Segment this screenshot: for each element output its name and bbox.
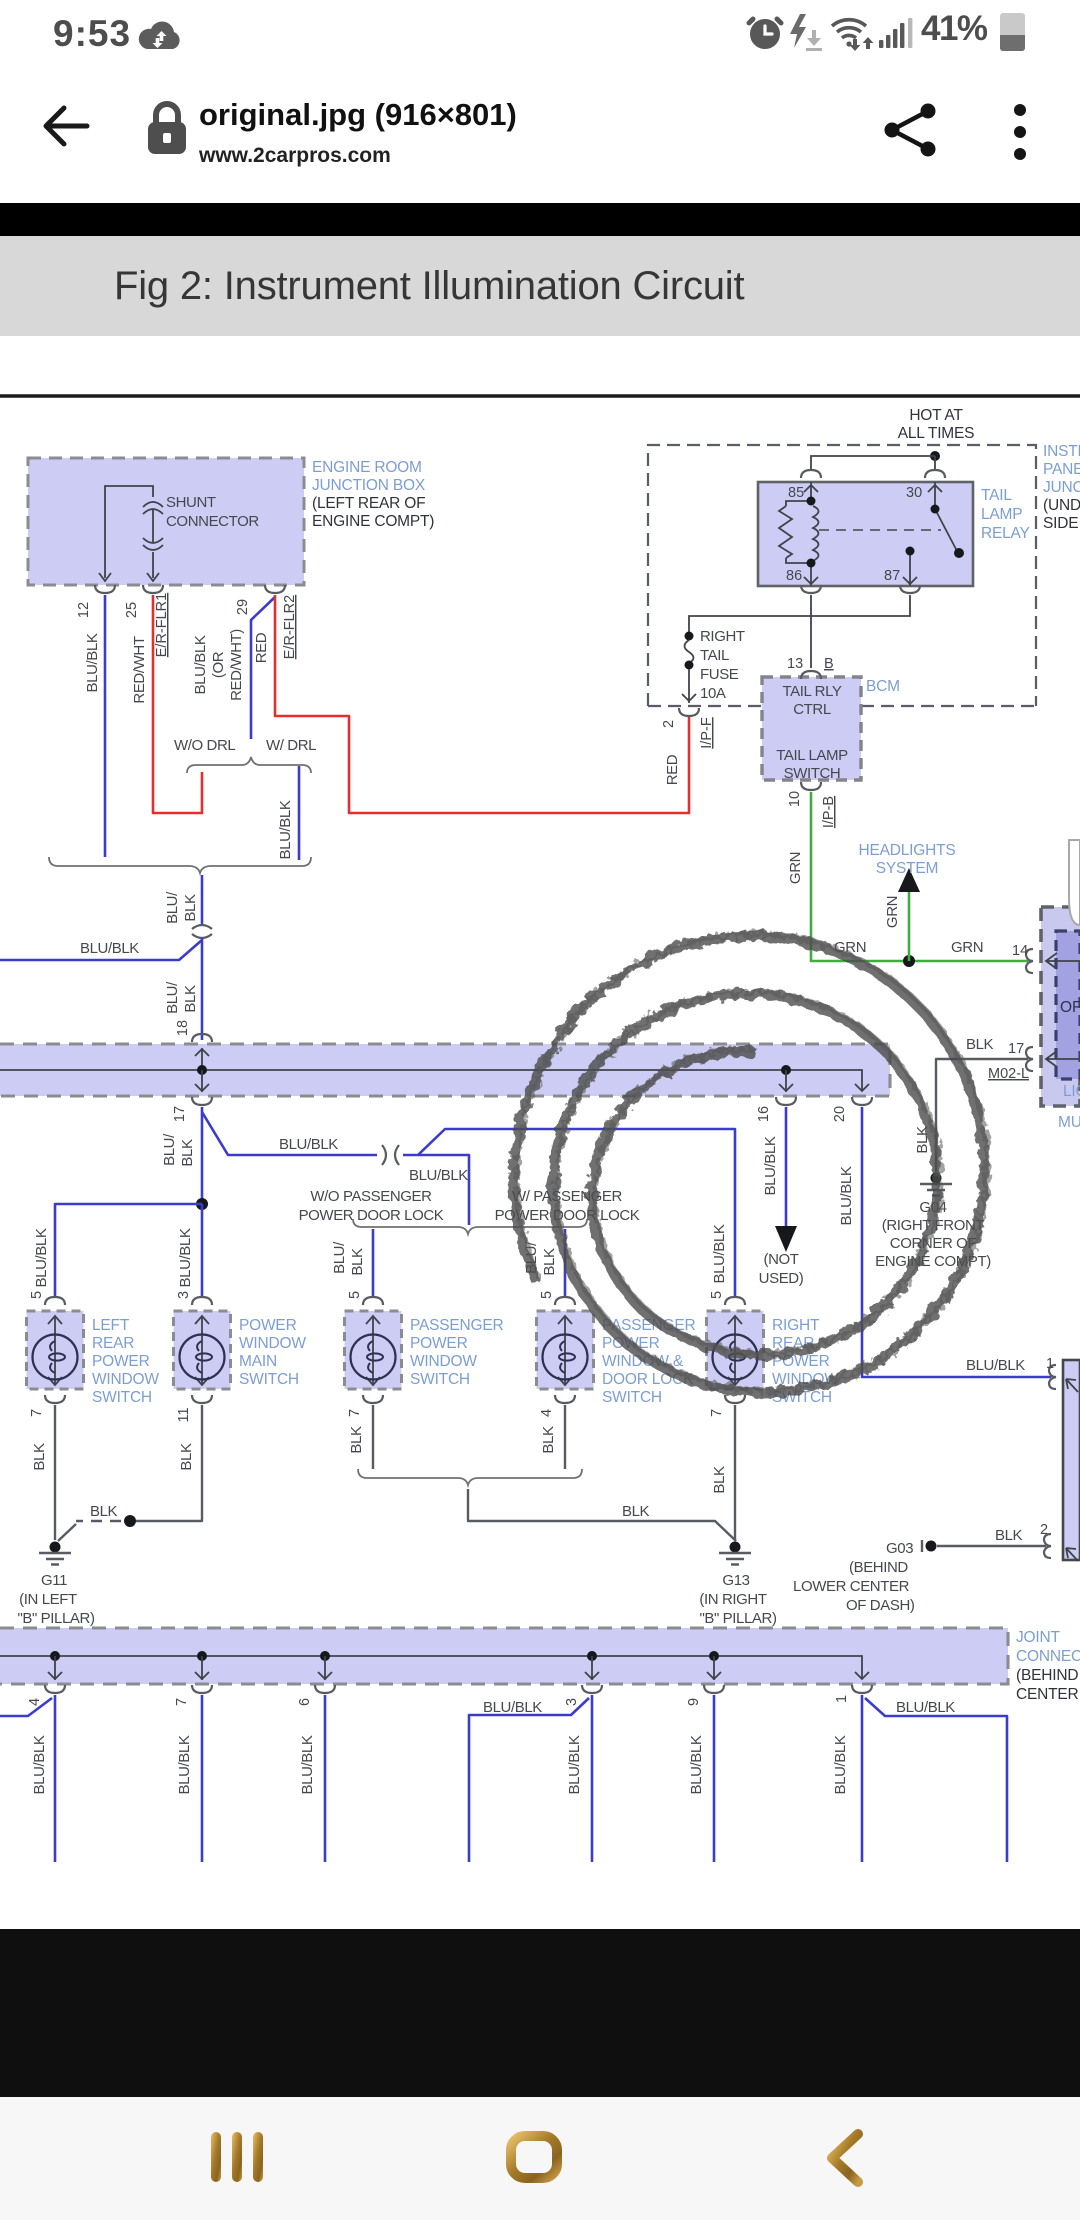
svg-text:OF DASH): OF DASH): [846, 1597, 915, 1614]
wire BLK right rear to G13: [734, 1405, 736, 1540]
svg-text:SWITCH: SWITCH: [92, 1389, 152, 1406]
svg-text:CENTER C: CENTER C: [1016, 1686, 1080, 1703]
shunt connector SC1: [143, 502, 163, 581]
svg-text:2: 2: [661, 720, 677, 728]
engine room junction box: [28, 458, 304, 585]
svg-text:BLU/: BLU/: [331, 1241, 348, 1274]
svg-text:7: 7: [347, 1409, 363, 1417]
svg-text:W/ PASSENGER: W/ PASSENGER: [512, 1188, 623, 1205]
svg-text:G13: G13: [722, 1572, 749, 1589]
exit arrow pin 16: [779, 1070, 793, 1092]
svg-text:BLK: BLK: [348, 1426, 365, 1454]
right edge component box: [1063, 1360, 1080, 1560]
node green junction: [903, 955, 915, 967]
passenger power window switch: [345, 1311, 402, 1389]
svg-text:I/P-B: I/P-B: [821, 796, 837, 828]
wire 87 to fuse: [689, 595, 910, 632]
wire BLK G03 to pin 2: [937, 1545, 1046, 1547]
wire pin1 down: [861, 1695, 864, 1862]
svg-text:BLU/BLK: BLU/BLK: [31, 1735, 48, 1794]
pin 1 connector below bus2: [852, 1685, 872, 1693]
right tail fuse F1: [685, 632, 694, 641]
pin 4 connector below bus2: [45, 1685, 65, 1693]
svg-text:PASSENGER: PASSENGER: [410, 1317, 504, 1334]
svg-text:BLU/BLK: BLU/BLK: [832, 1735, 849, 1794]
node bus2 p6: [320, 1651, 330, 1661]
pin 6 connector below bus2: [315, 1685, 335, 1693]
wire BLK from G04 to pin 17: [936, 1059, 1028, 1172]
passenger power window switch pin5 connector: [363, 1297, 383, 1305]
alarm icon: [746, 13, 784, 51]
svg-text:BLU/: BLU/: [161, 1133, 178, 1166]
svg-text:7: 7: [709, 1409, 725, 1417]
back arrow: [40, 100, 92, 152]
wire after inline connector: [403, 1129, 735, 1297]
svg-text:TAIL: TAIL: [700, 647, 729, 664]
svg-text:(UND: (UND: [1043, 497, 1080, 514]
svg-text:POWER DOOR LOCK: POWER DOOR LOCK: [299, 1207, 444, 1224]
node hot feed: [930, 451, 940, 461]
joint connector bus: [0, 1628, 1008, 1684]
svg-text:85: 85: [788, 485, 804, 501]
BCM pin 13 connector: [801, 671, 821, 679]
wire to passenger switch: [372, 1229, 375, 1297]
svg-text:14: 14: [1012, 943, 1028, 959]
wire pin7 down: [201, 1695, 204, 1862]
svg-text:3: 3: [564, 1698, 580, 1706]
pin 20 connector below bus: [852, 1097, 872, 1105]
node bus2 p4: [50, 1651, 60, 1661]
I/P-F pin 2 connector: [679, 708, 699, 716]
share icon: [881, 102, 939, 158]
lighting switch outer box: [1041, 907, 1080, 1106]
svg-text:POWER: POWER: [239, 1317, 297, 1334]
svg-text:JOINT: JOINT: [1016, 1629, 1061, 1646]
black strip under header: [0, 203, 1080, 236]
pin 25 connector: [143, 585, 163, 593]
svg-text:18: 18: [175, 1020, 191, 1036]
wire BLU/BLK pin16 not used: [785, 1107, 788, 1230]
wire BLK left rear to G11: [54, 1405, 56, 1540]
svg-text:RIGHT: RIGHT: [700, 628, 745, 645]
battery icon: [999, 10, 1026, 52]
svg-text:E/R-FLR1: E/R-FLR1: [154, 593, 170, 657]
svg-text:BLU/BLK: BLU/BLK: [33, 1228, 50, 1287]
junction bus 1: [0, 1044, 890, 1096]
tail lamp relay K1: [758, 482, 973, 586]
svg-text:6: 6: [297, 1698, 313, 1706]
svg-text:20: 20: [832, 1106, 848, 1122]
svg-text:SWITCH: SWITCH: [784, 765, 841, 782]
merge brace to single wire: [49, 857, 311, 873]
wire 86 to BCM pin 13: [810, 595, 812, 668]
svg-text:BLU/: BLU/: [164, 981, 181, 1014]
relay pin 30 connector: [925, 470, 945, 478]
svg-text:HOT AT: HOT AT: [909, 407, 963, 424]
svg-text:JUNC: JUNC: [1043, 479, 1080, 496]
ground G04: [920, 1173, 952, 1196]
svg-text:W/O DRL: W/O DRL: [174, 737, 235, 754]
svg-text:CTRL: CTRL: [793, 701, 831, 718]
node bus1-b: [781, 1065, 791, 1075]
wire pin1 branch right: [865, 1698, 1007, 1862]
svg-text:3: 3: [176, 1291, 192, 1299]
wire pin4 down: [54, 1695, 57, 1862]
wire RED from pin 29 to I/P-F: [275, 595, 689, 813]
svg-text:REAR: REAR: [92, 1335, 134, 1352]
internal wire to shunt: [105, 486, 153, 578]
ground G11: [39, 1542, 71, 1565]
svg-text:BLU/BLK: BLU/BLK: [299, 1735, 316, 1794]
wire to left rear switch: [55, 1204, 202, 1297]
menu dots: [1008, 102, 1032, 162]
wire BLU/BLK below DRL brace: [298, 766, 301, 860]
nav home icon: [506, 2131, 562, 2183]
svg-text:10: 10: [787, 791, 803, 807]
svg-text:BLK: BLK: [711, 1466, 728, 1494]
svg-text:BLK: BLK: [90, 1503, 118, 1520]
brace passenger lock alternatives: [353, 1219, 587, 1234]
svg-text:BLU/BLK: BLU/BLK: [966, 1357, 1025, 1374]
svg-text:BLU/BLK: BLU/BLK: [838, 1166, 855, 1225]
status bar: [0, 0, 1080, 60]
wire BLU/BLK to bus: [201, 938, 204, 1040]
relay pin 87 connector: [900, 585, 920, 593]
svg-text:CONNECTOR: CONNECTOR: [166, 513, 259, 530]
svg-text:BLU/BLK: BLU/BLK: [762, 1136, 779, 1195]
svg-text:SWITCH: SWITCH: [239, 1371, 299, 1388]
svg-text:4: 4: [27, 1698, 43, 1706]
svg-text:RIGHT: RIGHT: [772, 1317, 820, 1334]
left rear power window switch: [27, 1311, 84, 1389]
svg-text:GRN: GRN: [884, 896, 901, 928]
right rear power window switch pin5 connector: [725, 1297, 745, 1305]
svg-text:BLU/BLK: BLU/BLK: [176, 1735, 193, 1794]
svg-text:10A: 10A: [700, 685, 726, 702]
BCM pin 10 connector: [801, 782, 821, 790]
nav recents icon: [209, 2130, 269, 2184]
svg-text:TAIL: TAIL: [981, 487, 1012, 504]
pin 1 connector right: [1049, 1365, 1056, 1389]
exit arrow pin 17: [195, 1070, 209, 1092]
wifi icon: [828, 13, 876, 53]
pin2 entry arrow: [1066, 1548, 1078, 1561]
svg-text:5: 5: [539, 1291, 555, 1299]
wire BLU/BLK below merge: [201, 875, 204, 925]
pin 2 connector right: [1044, 1534, 1051, 1558]
svg-text:(BEHIND L: (BEHIND L: [1016, 1667, 1080, 1684]
nav back icon: [820, 2128, 868, 2188]
svg-text:RELAY: RELAY: [981, 525, 1030, 542]
svg-text:16: 16: [756, 1106, 772, 1122]
node bus1-a: [197, 1065, 207, 1075]
svg-text:ENGINE ROOM: ENGINE ROOM: [312, 459, 422, 476]
svg-text:9: 9: [686, 1698, 702, 1706]
svg-text:"B" PILLAR): "B" PILLAR): [17, 1610, 95, 1627]
pin 17 entry arrow: [1046, 1051, 1080, 1067]
svg-text:WINDOW: WINDOW: [92, 1371, 159, 1388]
svg-text:SHUNT: SHUNT: [166, 494, 216, 511]
svg-text:BLU/BLK: BLU/BLK: [483, 1699, 542, 1716]
svg-text:25: 25: [124, 602, 140, 618]
svg-text:BLU/BLK: BLU/BLK: [896, 1699, 955, 1716]
brace ground merge: [358, 1469, 582, 1485]
svg-text:MU: MU: [1058, 1114, 1080, 1131]
svg-text:B: B: [824, 656, 834, 672]
svg-text:(IN RIGHT: (IN RIGHT: [699, 1591, 766, 1608]
svg-text:"B" PILLAR): "B" PILLAR): [699, 1610, 777, 1627]
svg-text:INSTR: INSTR: [1043, 443, 1080, 460]
wire BLK main switch: [140, 1405, 202, 1521]
bus 1 center line: [0, 1070, 862, 1090]
svg-text:MAIN: MAIN: [239, 1353, 277, 1370]
svg-text:(IN LEFT: (IN LEFT: [19, 1591, 77, 1608]
svg-text:RED: RED: [253, 632, 270, 663]
svg-text:12: 12: [76, 602, 92, 618]
title band: [0, 236, 1080, 336]
svg-text:(BEHIND: (BEHIND: [849, 1559, 908, 1576]
signal bars: [879, 16, 913, 50]
svg-text:LAMP: LAMP: [981, 506, 1022, 523]
passenger power window and door lock switch pin5 connector: [555, 1297, 575, 1305]
pin 14 entry arrow: [1046, 953, 1080, 969]
svg-text:BLK: BLK: [622, 1503, 650, 1520]
svg-text:7: 7: [174, 1698, 190, 1706]
wire BLU/BLK (OR RED/WHT) from pin 29: [251, 597, 275, 739]
svg-text:LOWER CENTER: LOWER CENTER: [793, 1578, 910, 1595]
svg-text:SYSTEM: SYSTEM: [876, 860, 939, 877]
svg-text:(NOT: (NOT: [763, 1251, 798, 1268]
left rear power window switch pin5 connector: [45, 1297, 65, 1305]
svg-text:CONNECTO: CONNECTO: [1016, 1648, 1080, 1665]
svg-text:BLK: BLK: [178, 1443, 195, 1471]
BCM box: [762, 677, 861, 780]
svg-text:WINDOW: WINDOW: [410, 1353, 477, 1370]
exit arrow pin 20: [855, 1084, 869, 1091]
svg-text:5: 5: [29, 1291, 45, 1299]
svg-text:JUNCTION BOX: JUNCTION BOX: [312, 477, 426, 494]
svg-text:G03: G03: [886, 1540, 913, 1557]
pin 14 connector: [1026, 949, 1033, 973]
svg-text:USED): USED): [759, 1270, 804, 1287]
separator line under title: [0, 394, 1080, 397]
relay coil: [779, 482, 819, 586]
svg-text:BLU/BLK: BLU/BLK: [279, 1136, 338, 1153]
svg-text:LEFT: LEFT: [92, 1317, 130, 1334]
wire pin9 down: [713, 1695, 716, 1862]
instrument panel junction box (dashed): [648, 445, 1036, 706]
svg-text:POWER: POWER: [92, 1353, 150, 1370]
wire to main switch: [201, 1204, 204, 1297]
svg-text:BLK: BLK: [995, 1527, 1023, 1544]
svg-text:BLK: BLK: [182, 985, 199, 1013]
wire BLU/BLK from pin 12: [104, 595, 107, 857]
node bus2 p3: [587, 1651, 597, 1661]
hand-drawn pencil circle annotation: [514, 936, 984, 1393]
relay mech link (dashed): [819, 529, 941, 531]
svg-text:G11: G11: [41, 1572, 67, 1589]
svg-text:BLU/BLK: BLU/BLK: [80, 940, 139, 957]
wire pin6 down: [324, 1695, 327, 1862]
svg-text:HEADLIGHTS: HEADLIGHTS: [858, 842, 955, 859]
svg-text:87: 87: [884, 568, 900, 584]
wire BLK merged to G13: [468, 1489, 736, 1541]
wire to pass window+lock switch: [564, 1229, 567, 1297]
svg-text:1: 1: [1046, 1356, 1054, 1372]
battery percent: [921, 9, 987, 49]
svg-text:BLK: BLK: [540, 1426, 557, 1454]
wire to DRL lock brace: [418, 1155, 469, 1225]
wire BLK pass window+lock switch: [564, 1405, 566, 1469]
svg-text:86: 86: [786, 568, 802, 584]
ground G13: [719, 1542, 751, 1565]
wire pin4 branch to left edge: [0, 1698, 52, 1716]
svg-text:GRN: GRN: [787, 852, 804, 884]
wire BLK passenger switch: [372, 1405, 374, 1469]
svg-text:5: 5: [347, 1291, 363, 1299]
bottom black content area: [0, 1929, 1080, 2097]
svg-text:OFF: OFF: [1060, 999, 1080, 1016]
svg-text:RED/WHT: RED/WHT: [131, 636, 148, 703]
svg-text:17: 17: [172, 1106, 188, 1122]
right rear power window switch: [707, 1311, 764, 1389]
svg-text:(OR: (OR: [210, 651, 227, 678]
svg-text:W/ DRL: W/ DRL: [266, 737, 316, 754]
svg-text:ENGINE COMPT): ENGINE COMPT): [875, 1253, 991, 1270]
svg-text:TAIL LAMP: TAIL LAMP: [776, 747, 848, 764]
wire pin3 down: [591, 1695, 594, 1862]
relay pin 86 connector: [801, 585, 821, 593]
svg-text:M02-L: M02-L: [988, 1066, 1029, 1082]
svg-text:SIDE: SIDE: [1043, 515, 1078, 532]
node bus2 p9: [709, 1651, 719, 1661]
brace DRL alternatives: [187, 757, 311, 773]
svg-text:LIG: LIG: [1063, 1083, 1080, 1100]
svg-text:WINDOW: WINDOW: [239, 1335, 306, 1352]
svg-text:BLU/: BLU/: [164, 891, 181, 924]
svg-text:I/P-F: I/P-F: [699, 717, 715, 749]
wire BLU/BLK pin17 down: [201, 1107, 204, 1204]
svg-text:BLU/BLK: BLU/BLK: [277, 800, 294, 859]
lock icon: [143, 100, 193, 158]
svg-text:BLK: BLK: [966, 1036, 994, 1053]
svg-text:FUSE: FUSE: [700, 666, 739, 683]
pin 12 connector: [95, 585, 115, 593]
node bus2 p7: [197, 1651, 207, 1661]
svg-text:BLK: BLK: [182, 894, 199, 922]
pin 17 connector (M02-L): [1026, 1047, 1033, 1071]
svg-text:GRN: GRN: [951, 939, 983, 956]
navigation bar: [0, 2097, 1080, 2220]
svg-text:1: 1: [834, 1695, 850, 1703]
svg-text:RED: RED: [664, 754, 681, 785]
inline connector C2: [382, 1145, 399, 1165]
svg-text:5: 5: [709, 1291, 725, 1299]
wire BLU/BLK pin20 to right edge: [862, 1107, 1051, 1377]
entry arrow pin 18: [195, 1048, 209, 1070]
wire to relay pins: [811, 456, 935, 470]
passenger power window and door lock switch: [537, 1311, 594, 1389]
svg-text:BLU/BLK: BLU/BLK: [409, 1167, 468, 1184]
svg-text:BLK: BLK: [179, 1139, 196, 1167]
svg-text:BCM: BCM: [866, 678, 900, 695]
svg-text:SWITCH: SWITCH: [410, 1371, 470, 1388]
charging bolt icon: [786, 12, 822, 52]
svg-text:POWER: POWER: [410, 1335, 468, 1352]
pin 3 connector below bus2: [582, 1685, 602, 1693]
svg-text:BLU/BLK: BLU/BLK: [192, 635, 209, 694]
svg-text:CORNER OF: CORNER OF: [890, 1235, 977, 1252]
svg-text:2: 2: [1040, 1522, 1048, 1538]
svg-text:SWITCH: SWITCH: [602, 1389, 662, 1406]
svg-text:13: 13: [787, 656, 803, 672]
svg-text:ALL TIMES: ALL TIMES: [898, 425, 975, 442]
svg-text:BLK: BLK: [31, 1443, 48, 1471]
pin 29 connector: [265, 585, 285, 593]
svg-text:BLU/BLK: BLU/BLK: [711, 1224, 728, 1283]
svg-text:RED/WHT): RED/WHT): [228, 629, 245, 701]
svg-text:30: 30: [906, 485, 922, 501]
wire GRN to headlights system: [908, 888, 911, 961]
relay switch blade: [903, 482, 957, 586]
wire RED/WHT from pin 25: [153, 595, 202, 813]
wire pin3 branch left: [469, 1698, 589, 1862]
power window main switch: [174, 1311, 231, 1389]
pin 9 connector below bus2: [704, 1685, 724, 1693]
svg-text:BLK: BLK: [541, 1248, 558, 1276]
svg-text:PANEL: PANEL: [1043, 461, 1080, 478]
svg-text:E/R-FLR2: E/R-FLR2: [282, 595, 298, 659]
pin1 entry arrow: [1066, 1379, 1078, 1392]
wire BLU/BLK from left edge: [0, 940, 202, 960]
svg-text:(LEFT REAR OF: (LEFT REAR OF: [312, 495, 425, 512]
svg-text:BLU/BLK: BLU/BLK: [177, 1228, 194, 1287]
svg-text:17: 17: [1008, 1041, 1024, 1057]
svg-text:TAIL RLY: TAIL RLY: [782, 683, 841, 700]
inline connector: [192, 925, 212, 938]
relay pin 85 connector: [801, 470, 821, 478]
white overlay card top-right: [1069, 840, 1080, 925]
lighting switch inner box: [1056, 931, 1080, 1079]
pin 7 connector below bus2: [192, 1685, 212, 1693]
svg-text:W/O PASSENGER: W/O PASSENGER: [310, 1188, 432, 1205]
cloud sync icon: [136, 18, 184, 54]
pin 17 connector below bus: [192, 1097, 212, 1105]
power window main switch pin3 connector: [192, 1297, 212, 1305]
svg-text:BLU/BLK: BLU/BLK: [84, 633, 101, 692]
svg-text:ENGINE COMPT): ENGINE COMPT): [312, 513, 434, 530]
bus 2 center line: [0, 1656, 862, 1678]
node split left: [196, 1198, 208, 1210]
wire GRN from BCM: [811, 792, 1028, 961]
svg-text:BLU/BLK: BLU/BLK: [688, 1735, 705, 1794]
exit arrow bus2 p1: [855, 1672, 869, 1679]
svg-text:4: 4: [539, 1409, 555, 1417]
svg-text:BLK: BLK: [349, 1248, 366, 1276]
svg-text:11: 11: [176, 1407, 192, 1422]
pin 16 connector below bus: [776, 1097, 796, 1105]
svg-text:7: 7: [29, 1409, 45, 1417]
svg-text:29: 29: [235, 599, 251, 615]
wire BLU/BLK branch right: [202, 1112, 377, 1155]
svg-text:BLU/BLK: BLU/BLK: [566, 1735, 583, 1794]
